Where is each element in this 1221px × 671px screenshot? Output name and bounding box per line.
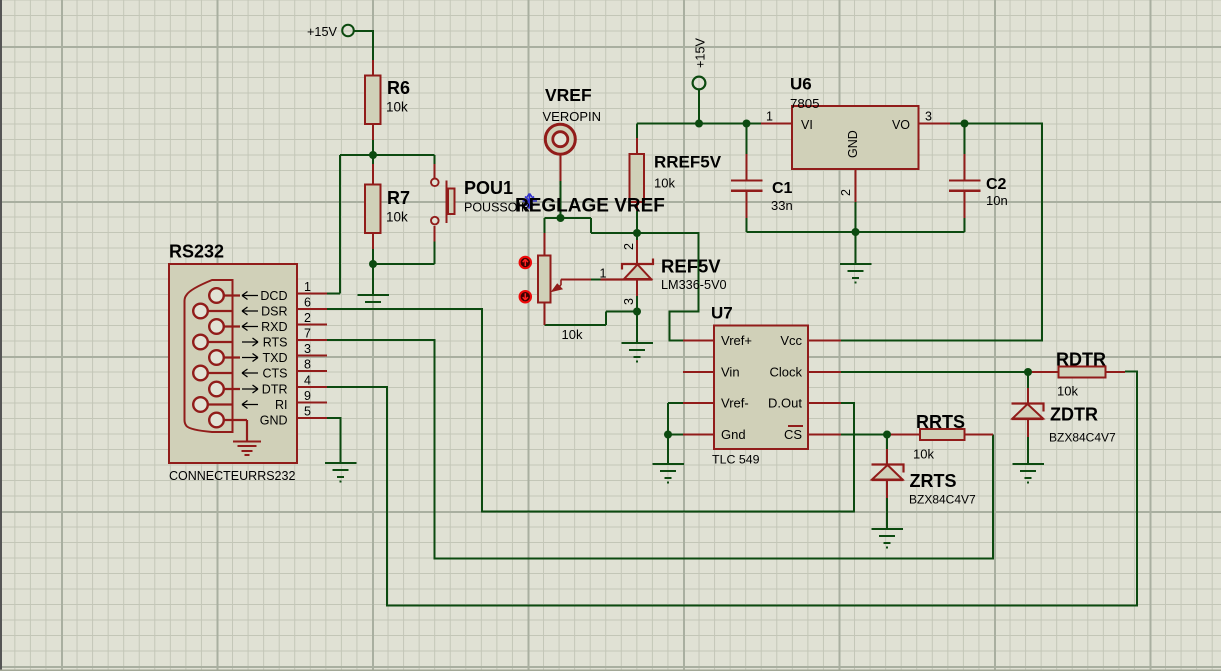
svg-text:RS232: RS232 [169,242,224,262]
svg-text:ZRTS: ZRTS [910,471,957,491]
svg-text:R6: R6 [387,78,410,98]
svg-text:RRTS: RRTS [916,412,965,432]
svg-text:Gnd: Gnd [721,427,746,442]
svg-text:5: 5 [304,405,311,419]
svg-text:POU1: POU1 [464,178,513,198]
svg-text:BZX84C4V7: BZX84C4V7 [1049,431,1116,445]
svg-text:REGLAGE VREF: REGLAGE VREF [515,196,665,217]
svg-text:VO: VO [892,118,910,132]
svg-text:+15V: +15V [307,25,338,39]
svg-text:RREF5V: RREF5V [654,153,722,172]
svg-text:3: 3 [622,298,636,305]
svg-text:DTR: DTR [262,383,288,397]
svg-text:BZX84C4V7: BZX84C4V7 [909,493,976,507]
svg-text:3: 3 [304,342,311,356]
svg-text:C2: C2 [986,176,1007,193]
svg-text:10k: 10k [1057,384,1078,399]
svg-text:C1: C1 [772,180,793,197]
svg-text:Vref-: Vref- [721,396,749,411]
svg-text:+15V: +15V [694,37,708,68]
svg-text:8: 8 [304,358,311,372]
svg-text:R7: R7 [387,188,410,208]
svg-text:10k: 10k [654,176,675,191]
svg-text:RTS: RTS [263,336,288,350]
svg-text:Clock: Clock [769,365,802,380]
svg-text:TLC 549: TLC 549 [712,453,760,467]
svg-text:10k: 10k [562,327,583,342]
svg-text:10k: 10k [386,210,408,225]
svg-text:VREF: VREF [545,85,592,105]
svg-text:CS: CS [784,427,802,442]
svg-text:U7: U7 [711,304,733,323]
svg-text:LM336-5V0: LM336-5V0 [661,278,727,292]
svg-text:CONNECTEURRS232: CONNECTEURRS232 [169,469,295,483]
svg-text:RXD: RXD [261,320,287,334]
svg-text:VI: VI [801,118,813,132]
svg-text:33n: 33n [771,198,793,213]
svg-text:10k: 10k [386,100,408,115]
svg-text:TXD: TXD [263,351,288,365]
svg-text:3: 3 [925,110,932,124]
svg-text:RDTR: RDTR [1056,350,1106,370]
svg-text:2: 2 [304,311,311,325]
svg-text:CTS: CTS [263,367,288,381]
svg-text:DCD: DCD [260,289,287,303]
svg-text:9: 9 [304,389,311,403]
svg-text:ZDTR: ZDTR [1050,405,1098,425]
svg-text:1: 1 [766,110,773,124]
svg-text:GND: GND [846,130,860,158]
svg-text:7805: 7805 [790,96,820,111]
svg-text:Vcc: Vcc [780,333,802,348]
svg-text:RI: RI [275,398,288,412]
svg-text:7: 7 [304,327,311,341]
svg-text:D.Out: D.Out [768,396,802,411]
svg-text:DSR: DSR [261,305,287,319]
svg-text:VEROPIN: VEROPIN [543,109,602,124]
svg-text:U6: U6 [790,75,812,94]
svg-text:1: 1 [600,267,607,281]
svg-text:2: 2 [839,189,853,196]
svg-text:Vin: Vin [721,365,740,380]
svg-text:10k: 10k [913,447,934,462]
svg-text:6: 6 [304,296,311,310]
svg-text:2: 2 [622,243,636,250]
svg-text:Vref+: Vref+ [721,333,752,348]
svg-text:REF5V: REF5V [661,256,721,277]
svg-text:4: 4 [304,374,311,388]
svg-text:10n: 10n [986,193,1008,208]
svg-text:GND: GND [260,414,288,428]
svg-text:1: 1 [304,280,311,294]
